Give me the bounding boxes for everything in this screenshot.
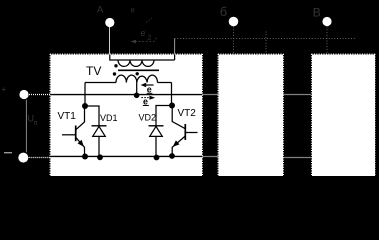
svg-text:2: 2 xyxy=(148,35,152,42)
svg-text:TV: TV xyxy=(86,64,101,78)
svg-text:+: + xyxy=(2,85,7,94)
svg-text:e: e xyxy=(147,84,152,94)
svg-text:В: В xyxy=(313,5,321,19)
svg-text:е: е xyxy=(131,6,136,15)
svg-text:п: п xyxy=(34,120,38,127)
svg-text:VT1: VT1 xyxy=(58,111,77,122)
svg-text:VD2: VD2 xyxy=(139,113,157,123)
svg-text:б: б xyxy=(220,4,227,19)
svg-text:e: e xyxy=(143,96,148,106)
svg-text:е: е xyxy=(141,28,146,38)
svg-text:VT2: VT2 xyxy=(178,108,197,119)
svg-text:VD1: VD1 xyxy=(100,113,118,123)
svg-text:A: A xyxy=(97,5,104,16)
